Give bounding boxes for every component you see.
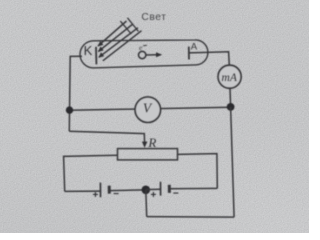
wavefront tick 2 xyxy=(127,18,138,32)
wire right vertical xyxy=(231,107,235,217)
battery B1 long plate xyxy=(99,183,101,198)
light ray 4 xyxy=(103,31,142,61)
cathode K plate xyxy=(95,47,97,65)
svg-text:A: A xyxy=(191,42,198,53)
light ray 3 xyxy=(99,28,138,58)
node right junction xyxy=(227,103,235,111)
wire resistor right lead xyxy=(178,154,218,189)
wire resistor left lead xyxy=(64,155,118,191)
svg-text:R: R xyxy=(147,135,156,150)
anode A plate xyxy=(188,47,190,60)
wire battery row left xyxy=(65,190,101,192)
wire bottom run xyxy=(147,216,234,219)
resistor R box xyxy=(118,149,178,160)
milliammeter mA circle xyxy=(218,65,241,88)
battery B2 long plate xyxy=(160,182,162,196)
battery B1 short plate xyxy=(108,186,111,194)
wire B1 to middle node xyxy=(109,189,145,192)
voltmeter V circle xyxy=(135,97,160,122)
battery B2 short plate xyxy=(168,185,171,193)
ray 3 arrowhead xyxy=(98,52,104,58)
wavefront tick 1 xyxy=(120,21,131,34)
svg-text:+: + xyxy=(150,190,156,201)
wire K lead to left vertical xyxy=(69,56,82,131)
wire middle node down xyxy=(145,190,148,217)
light ray 1 xyxy=(98,21,127,46)
wire B2 to right lead vertical xyxy=(169,187,217,189)
wiper arrowhead xyxy=(142,142,148,148)
light ray 2 xyxy=(98,24,132,51)
electron arrowhead xyxy=(156,52,162,57)
node battery middle xyxy=(142,186,151,195)
wire anode lead to mA xyxy=(189,52,229,66)
node left junction xyxy=(66,106,73,113)
svg-text:mA: mA xyxy=(222,72,238,84)
wire mA to junction xyxy=(229,88,232,107)
electron circle xyxy=(139,51,146,58)
svg-text:−: − xyxy=(173,189,179,200)
wire wiper run xyxy=(69,131,144,143)
wire node to B2 xyxy=(146,188,161,190)
svg-text:Свет: Свет xyxy=(141,12,166,23)
ray 1 arrowhead xyxy=(98,41,104,47)
electron minus bar xyxy=(143,44,147,47)
electron arrow xyxy=(146,54,157,56)
svg-text:−: − xyxy=(113,189,119,200)
phototube envelope xyxy=(80,40,208,68)
svg-text:+: + xyxy=(92,190,98,201)
ray 2 arrowhead xyxy=(98,47,104,53)
svg-text:K: K xyxy=(84,43,93,58)
wire voltmeter run xyxy=(69,107,230,110)
